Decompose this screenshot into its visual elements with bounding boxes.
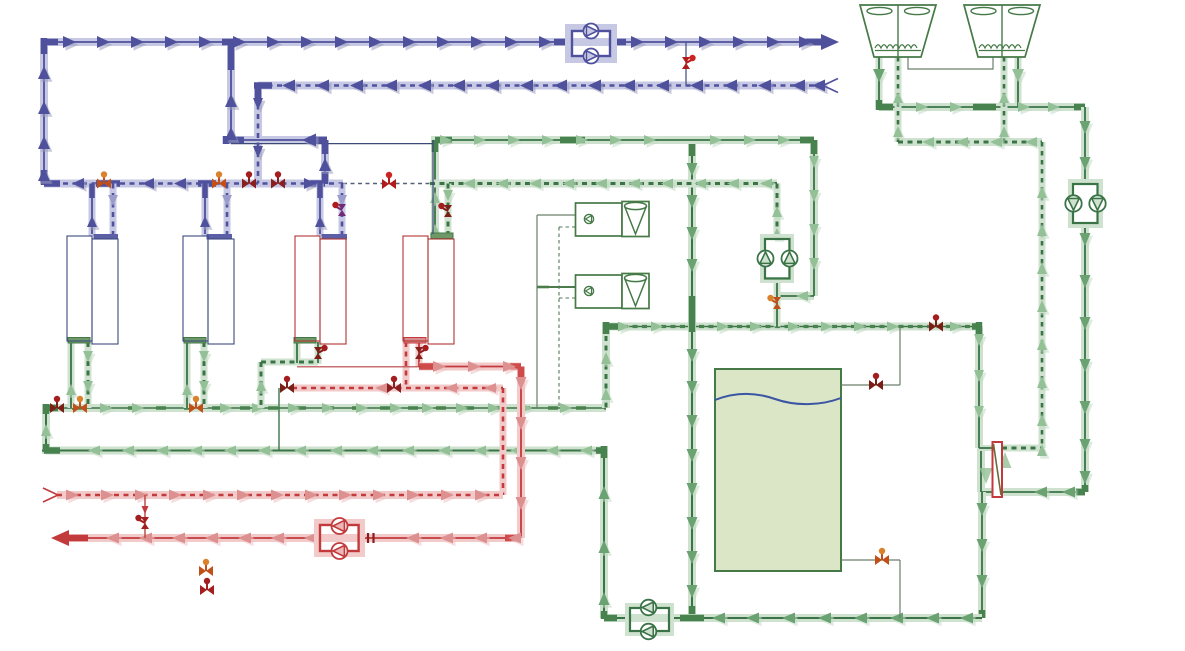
air handler AHU2 — [576, 274, 650, 309]
wire heating bypass riser — [142, 495, 149, 538]
heat exchanger HX1 — [993, 442, 1003, 497]
cooling tower CT2 — [964, 5, 1040, 57]
valve HP heating supply — [415, 345, 429, 359]
valve heating bypass — [135, 515, 149, 529]
wire tower water to HX — [981, 448, 1085, 500]
wire boiler B2 condenser piping — [182, 338, 212, 409]
wire HX dashed return to towers — [1002, 142, 1050, 459]
wire heating pump loop — [317, 522, 362, 554]
cooling tower CT1 — [860, 5, 936, 57]
wire CW supply top line — [430, 135, 822, 304]
wire CW dashed return y183 — [430, 179, 777, 192]
flow arrows CHW manifold — [38, 66, 334, 192]
valve thin dashed — [382, 172, 396, 189]
wire CHW cores — [44, 42, 828, 184]
wire CW crossover line y326 — [601, 322, 979, 409]
pump pair P-B1 P-B2 — [641, 600, 657, 640]
wire CW manifold band y408 — [42, 404, 608, 454]
wire AHU coil piping — [537, 215, 575, 408]
wire tank lower stub — [841, 560, 900, 618]
wire heating dashed supply main — [43, 488, 503, 503]
wire CW manifold core — [42, 404, 606, 618]
wire CW return bottom line — [604, 606, 982, 633]
flow arrows CW lower line — [41, 424, 612, 608]
valve CW manifold V1 — [50, 396, 64, 413]
wire HX outlet drop — [970, 492, 990, 618]
valve V-CW crossover — [929, 314, 943, 331]
valve chiller CH1 CW isolation — [314, 345, 328, 359]
valve CH1 CHW return — [332, 202, 346, 216]
wire thin navy links — [231, 42, 686, 234]
wire CW pump branch — [763, 184, 791, 327]
valve CHW manifold V4 — [271, 171, 285, 188]
wire thin heating line — [297, 366, 421, 368]
pump pair P-H1 P-H2 — [332, 518, 348, 559]
flow arrows CHW supply — [63, 34, 839, 51]
wire plant water to HX — [972, 322, 993, 448]
wire heat-pump HP CW connections — [431, 184, 456, 239]
wire tank upper stub — [841, 327, 900, 385]
valve CW pump discharge — [767, 295, 781, 309]
valve CHW manifold V3 — [242, 171, 256, 188]
wire boiler B1 CHW piping — [87, 184, 118, 240]
flow arrows CW manifold — [100, 403, 575, 416]
valve heating dashed V1 — [387, 376, 401, 393]
boiler B2 — [183, 236, 234, 344]
flow arrows heat exchanger — [980, 452, 1012, 484]
pump pair P-CT1 P-CT2 — [1065, 195, 1105, 211]
valve CHW manifold V1 — [97, 171, 111, 188]
wire heat-recovery tie — [278, 388, 280, 451]
valve spare orange — [199, 559, 213, 576]
wire heating supply — [419, 361, 529, 538]
wire chiller CH1 CW piping — [256, 338, 318, 409]
wire HP heating connections — [404, 338, 426, 389]
valve heating dashed V2 — [280, 376, 294, 393]
air handler AHU1 — [576, 202, 650, 237]
wire CHW bands — [40, 38, 828, 184]
valve CW manifold V3 — [189, 396, 203, 413]
valve tank lower — [875, 548, 889, 565]
heat-pump HP1 — [403, 236, 454, 344]
wire chiller CH1 CHW piping — [315, 184, 347, 240]
wire boiler B1 condenser piping — [66, 338, 96, 409]
wire tower dashed return header — [893, 57, 1042, 150]
wire tower supply header — [873, 57, 1085, 120]
valve spare red — [200, 578, 214, 595]
valve CHW manifold V2 — [212, 171, 226, 188]
chiller CH1 — [295, 236, 346, 344]
wire tower pump drop — [1071, 107, 1100, 492]
wire heating return main — [51, 530, 524, 546]
wire boiler B2 CHW piping — [200, 184, 232, 240]
wire tower equalizer — [908, 57, 993, 69]
valve HP CW return — [438, 203, 452, 217]
boiler B1 — [67, 236, 118, 344]
pump pair P-CW1 P-CW2 — [758, 251, 798, 267]
wire CHW pump loop — [568, 27, 614, 60]
wire CHW dark segments — [42, 38, 824, 185]
valve CHW makeup — [682, 55, 696, 69]
valve CW manifold V2 — [73, 396, 87, 413]
wire CW drop leg x692 — [687, 140, 701, 618]
valve tank upper — [869, 373, 883, 390]
flow arrows CHW dashed return — [282, 79, 838, 95]
wire CW lower line band — [46, 446, 604, 618]
pump pair P-CHW1 P-CHW2 — [584, 24, 599, 64]
storage tank TK1 — [715, 369, 841, 571]
wire heating dashed crossover — [292, 383, 503, 495]
